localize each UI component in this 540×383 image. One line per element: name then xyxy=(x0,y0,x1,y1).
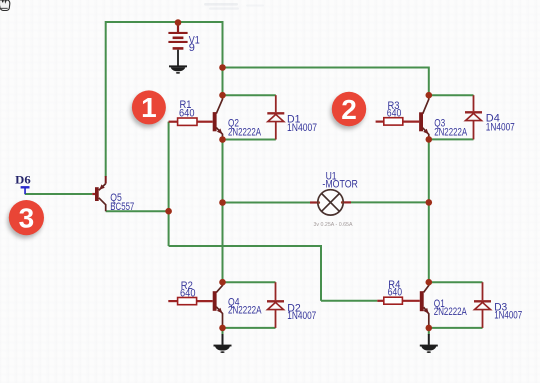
wire D4 bottom branch xyxy=(429,138,474,140)
resistor R3 xyxy=(376,118,420,125)
svg-text:3: 3 xyxy=(19,203,35,234)
wire D6 to Q5 base xyxy=(25,193,93,195)
ground (battery) xyxy=(169,65,187,73)
transistor Q5 (PNP BC557) xyxy=(92,176,105,211)
wire Q5 collector horizontal xyxy=(106,210,169,212)
wire left mid rail Q2 emitter to Q4 collector xyxy=(222,140,224,283)
svg-text:640: 640 xyxy=(388,287,403,299)
junction Q3 collector xyxy=(426,92,433,99)
faint UI smudge top xyxy=(204,3,264,10)
diode D2 xyxy=(267,282,284,328)
motor U1 xyxy=(310,190,351,215)
svg-text:640: 640 xyxy=(387,107,402,119)
wire D1 bottom branch xyxy=(223,139,276,141)
svg-text:2N2222A: 2N2222A xyxy=(434,127,467,139)
wire upper cross rail xyxy=(223,67,429,69)
svg-text:BC557: BC557 xyxy=(110,201,134,213)
wire cross feed to R4 xyxy=(169,245,321,247)
wire D2 bottom branch xyxy=(223,327,276,329)
transistor Q2 xyxy=(213,96,223,140)
wire D3 bottom branch xyxy=(429,327,483,329)
callout circle 2 xyxy=(330,92,366,129)
wire top rail VCC xyxy=(106,21,223,23)
ground (Q1) xyxy=(420,334,438,353)
diode D1 xyxy=(267,95,284,139)
wire D1 top branch xyxy=(223,94,276,96)
wire motor right xyxy=(351,201,429,203)
junction Q1 collector xyxy=(426,279,433,286)
junction Q4 emitter xyxy=(219,325,226,332)
wire ground stub Q4 xyxy=(222,328,224,335)
callout circle 3 xyxy=(7,200,44,238)
wire right of battery down to Q2 collector xyxy=(222,21,224,95)
svg-text:1N4007: 1N4007 xyxy=(486,121,515,133)
junction motor left xyxy=(219,199,226,206)
ground (Q4) xyxy=(214,334,232,353)
callout circle 1 xyxy=(131,90,166,127)
svg-text:2N2222A: 2N2222A xyxy=(228,305,262,317)
cursor icon (hand) xyxy=(0,0,10,10)
wire D3 top branch xyxy=(429,281,483,283)
wire R1 feed vertical xyxy=(168,122,170,246)
transistor Q3 xyxy=(419,96,429,139)
diode D3 xyxy=(474,282,491,328)
resistor R4 xyxy=(377,297,420,304)
wire right mid rail Q3 emitter to Q1 collector xyxy=(428,139,430,282)
svg-text:1: 1 xyxy=(141,92,157,123)
junction Q2 collector xyxy=(219,92,226,99)
resistor R2 xyxy=(168,298,212,305)
svg-text:-MOTOR: -MOTOR xyxy=(322,178,358,190)
svg-text:2N2222A: 2N2222A xyxy=(228,127,261,139)
transistor Q4 xyxy=(213,283,223,328)
svg-text:640: 640 xyxy=(179,108,195,120)
wire into R4 xyxy=(321,300,377,302)
svg-text:1N4007: 1N4007 xyxy=(287,122,317,134)
svg-text:2N2222A: 2N2222A xyxy=(434,306,467,318)
resistor R1 xyxy=(169,118,213,125)
pin D6 xyxy=(21,186,30,194)
junction Q1 emitter xyxy=(426,325,433,332)
diode D4 xyxy=(465,95,482,139)
junction battery top xyxy=(175,19,182,26)
transistor Q1 xyxy=(420,283,429,328)
svg-text:2: 2 xyxy=(341,94,357,125)
junction Q5 collector feed xyxy=(165,208,172,215)
junction motor right xyxy=(426,199,433,206)
wire vertical down to R4 row xyxy=(320,245,322,301)
svg-text:1N4007: 1N4007 xyxy=(494,310,522,322)
wire D4 top branch xyxy=(429,94,474,96)
svg-text:D6: D6 xyxy=(15,173,30,187)
svg-text:640: 640 xyxy=(180,288,196,300)
junction Q2 emitter xyxy=(219,136,226,143)
battery V1 xyxy=(168,23,187,66)
wire ground stub Q1 xyxy=(428,328,430,335)
wire left rail to Q5 emitter xyxy=(105,21,107,177)
wire motor left xyxy=(223,202,311,204)
junction upper cross rail xyxy=(219,64,226,71)
junction Q3 emitter xyxy=(426,136,433,143)
wire D2 top branch xyxy=(223,281,276,283)
svg-text:9: 9 xyxy=(189,42,195,54)
svg-text:1N4007: 1N4007 xyxy=(287,310,316,322)
junction Q4 collector xyxy=(219,279,226,286)
svg-text:3v 0.25A - 0.65A: 3v 0.25A - 0.65A xyxy=(314,222,354,228)
wire down to Q3 collector xyxy=(428,67,430,96)
